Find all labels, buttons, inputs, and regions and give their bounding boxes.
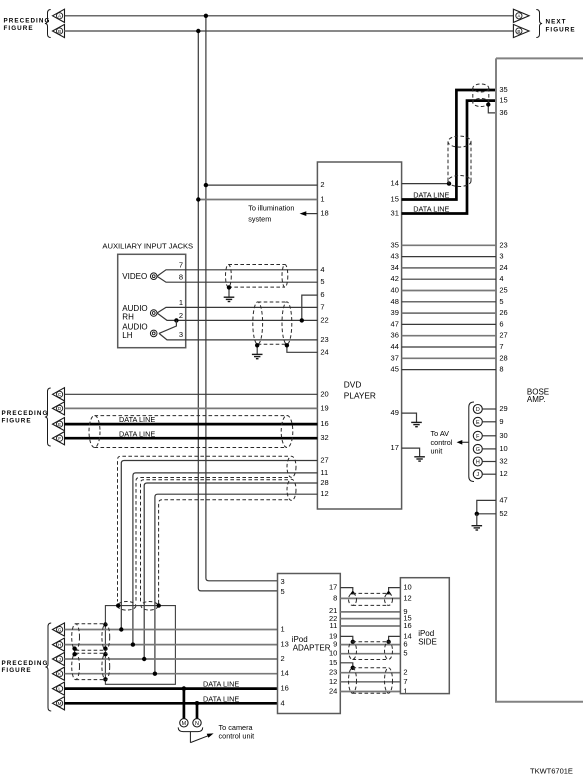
wire iPod pin 8 to side pin 12 (340, 597, 400, 599)
wire audio LH pin 3 to DVD pin 23 (159, 333, 317, 340)
svg-text:7: 7 (179, 260, 183, 269)
audio RH jack J2 (150, 310, 157, 317)
svg-text:12: 12 (329, 677, 337, 686)
svg-text:16: 16 (320, 419, 328, 428)
wire iPod-side pin 14 to shield (389, 636, 401, 641)
wire video pin 7 to DVD pin 4 (157, 270, 317, 276)
svg-text:M: M (58, 701, 62, 706)
wire iPod pin 23 to side pin 2 (340, 672, 400, 674)
wire DVD pin 17 to ground (402, 448, 420, 457)
svg-text:H: H (58, 642, 61, 647)
svg-text:4: 4 (499, 274, 503, 283)
audio shield drain to DVD pin 24 (287, 345, 318, 352)
svg-text:RH: RH (122, 313, 134, 322)
wire DVD pin 34 to BOSE pin 24 (402, 267, 496, 269)
svg-text:SIDE: SIDE (418, 637, 437, 646)
wire DVD pin 1 (198, 199, 317, 201)
svg-text:N: N (195, 721, 199, 727)
svg-text:26: 26 (499, 308, 507, 317)
svg-text:To illumination: To illumination (248, 204, 294, 213)
wire DVD pin 27 down to iPod pin 1 wire (121, 461, 317, 630)
svg-text:24: 24 (320, 347, 328, 356)
wire DVD pin 44 to BOSE pin 7 (402, 346, 496, 348)
arrowhead to illumination system (300, 211, 307, 216)
svg-text:1: 1 (320, 195, 324, 204)
connector arrow G (53, 623, 65, 636)
wire DVD pin 2 (206, 184, 318, 186)
wire to ground pins 47/52 (476, 514, 478, 526)
junction DVD28 wire / iPod pin2 wire (142, 657, 146, 661)
AV connector terminal G to BOSE pin 10 (473, 444, 507, 454)
shield of mid data cable (dashed) (95, 415, 288, 417)
svg-text:27: 27 (320, 456, 328, 465)
svg-text:29: 29 (499, 404, 507, 413)
svg-text:35: 35 (499, 85, 507, 94)
wire DVD pin 49 to ground (402, 413, 417, 422)
svg-text:25: 25 (499, 286, 507, 295)
ground (DVD pin 49) (411, 422, 422, 426)
AV connector terminal D to BOSE pin 29 (473, 404, 507, 414)
svg-text:3: 3 (281, 577, 285, 586)
junction shield drain pin36 (486, 102, 490, 106)
svg-text:28: 28 (320, 478, 328, 487)
svg-text:34: 34 (391, 263, 399, 272)
wire DVD pin 48 to BOSE pin 5 (402, 301, 496, 303)
svg-text:PRECEDING: PRECEDING (2, 410, 49, 417)
svg-text:30: 30 (499, 431, 507, 440)
svg-text:control unit: control unit (219, 732, 255, 741)
wire iPod pin 9 to side pin 6 (340, 644, 400, 646)
svg-text:24: 24 (329, 687, 337, 696)
arrow to camera control unit (190, 736, 208, 743)
svg-text:22: 22 (320, 315, 328, 324)
svg-text:2: 2 (281, 654, 285, 663)
junction pin19 / shield (351, 640, 355, 644)
svg-text:DATA LINE: DATA LINE (203, 680, 239, 689)
connector arrow H (53, 638, 65, 651)
svg-text:7: 7 (499, 342, 503, 351)
wire DVD pin 43 to BOSE pin 3 (402, 256, 496, 258)
svg-text:15: 15 (329, 658, 337, 667)
shield of cable G/H (dashed) (76, 623, 106, 625)
wire iPod pin 21 to side pin 9 (340, 611, 400, 613)
BOSE amp box (496, 58, 583, 701)
wire arrow D to DVD pin 19 (65, 407, 318, 409)
wire iPod pin 19 to shield (340, 636, 353, 641)
svg-text:J: J (58, 657, 60, 662)
ground (audio shield) (252, 354, 263, 358)
svg-text:DATA LINE: DATA LINE (203, 694, 239, 703)
wire iPod pin 12 to side pin 7 (340, 681, 400, 683)
wire audio LH common link (159, 320, 176, 333)
AV connector terminal E to BOSE pin 9 (473, 417, 503, 427)
wire DVD pin 47 to BOSE pin 6 (402, 323, 496, 325)
connector arrow K (53, 667, 65, 680)
svg-text:32: 32 (499, 457, 507, 466)
junction shield 27/11 to bus (116, 603, 120, 607)
shield of vertical data cable (dashed) (447, 142, 449, 181)
wire iPod-side pin 10 to shield (389, 588, 401, 591)
wire iPod pin 10 to side pin 5 (340, 653, 400, 655)
wire iPod pin 24 to side pin 1 (340, 691, 400, 693)
svg-text:44: 44 (391, 342, 399, 351)
svg-text:FIGURE: FIGURE (2, 418, 32, 425)
svg-text:49: 49 (391, 408, 399, 417)
svg-text:16: 16 (281, 684, 289, 693)
svg-text:5: 5 (499, 297, 503, 306)
data line wire arrow E to DVD pin 16 (thick) (65, 423, 318, 426)
svg-text:39: 39 (391, 308, 399, 317)
svg-text:FIGURE: FIGURE (4, 25, 34, 32)
wire DVD pin 11 down to iPod pin 13 wire (133, 473, 318, 645)
svg-text:8: 8 (499, 365, 503, 374)
connector arrow E (53, 418, 65, 431)
svg-text:3: 3 (179, 330, 183, 339)
wire iPod pin 11 to side pin 16 (340, 625, 400, 627)
wire audio RH pin 1 to DVD pin 7 (157, 307, 317, 313)
svg-text:1: 1 (179, 298, 183, 307)
junction bus / GH tube bottom (103, 646, 107, 650)
video jack J1 (150, 273, 157, 280)
svg-text:43: 43 (391, 252, 399, 261)
auxiliary input jacks box (118, 254, 186, 347)
wire DVD pin 42 to BOSE pin 4 (402, 278, 496, 280)
svg-text:G: G (476, 447, 480, 453)
svg-text:15: 15 (391, 195, 399, 204)
svg-text:8: 8 (333, 593, 337, 602)
svg-text:47: 47 (391, 319, 399, 328)
iPod side box (400, 578, 449, 694)
svg-text:5: 5 (320, 277, 324, 286)
junction audio common fork (174, 318, 178, 322)
svg-text:10: 10 (403, 583, 411, 592)
shield of cable 9/10 (dashed) (353, 641, 389, 643)
brace top-left (45, 10, 51, 38)
bracket for AV control terminals (469, 402, 474, 482)
svg-text:PLAYER: PLAYER (344, 390, 376, 400)
svg-text:5: 5 (281, 587, 285, 596)
audio LH jack J3 (150, 330, 157, 337)
svg-text:2: 2 (320, 180, 324, 189)
connector arrow L (53, 682, 65, 695)
svg-text:NEXT: NEXT (546, 18, 567, 25)
wire DVD pin 37 to BOSE pin 28 (402, 357, 496, 359)
svg-text:PRECEDING: PRECEDING (2, 660, 49, 667)
svg-text:DATA LINE: DATA LINE (119, 415, 155, 424)
wire iPod pin 17 to shield (340, 588, 353, 591)
shield of cable 27/11 (dashed) (118, 456, 289, 601)
svg-text:system: system (248, 215, 271, 224)
shield of cable 28/12 (dashed) (141, 480, 289, 602)
connector arrow B (to preceding figure) (53, 24, 65, 37)
svg-text:6: 6 (320, 290, 324, 299)
svg-text:DATA LINE: DATA LINE (413, 191, 449, 200)
svg-text:13: 13 (281, 640, 289, 649)
svg-text:D: D (476, 407, 480, 413)
junction audio shield drain left (255, 343, 259, 347)
svg-text:2: 2 (403, 668, 407, 677)
svg-text:3: 3 (499, 252, 503, 261)
junction pin14 / shield (447, 181, 451, 185)
wire DVD pin 35 to BOSE pin 23 (402, 244, 496, 246)
junction DVD12 wire / iPod pin14 wire (153, 672, 157, 676)
svg-text:17: 17 (329, 583, 337, 592)
svg-text:52: 52 (499, 509, 507, 518)
wire drop to terminal N (thick) (196, 703, 199, 718)
wire DVD pin 14 to shield (402, 183, 449, 185)
wire iPod pin 15 to shield (340, 663, 353, 668)
svg-text:4: 4 (320, 265, 324, 274)
shield of video cable (dashed) (228, 264, 285, 266)
svg-text:37: 37 (391, 353, 399, 362)
svg-text:11: 11 (320, 468, 328, 477)
junction net B / top wire (196, 29, 200, 33)
svg-text:7: 7 (403, 677, 407, 686)
junction shield 28/12 to bus (157, 603, 161, 607)
junction data line 16 / M drop (182, 686, 187, 691)
svg-text:14: 14 (391, 179, 399, 188)
bracket under M/N (178, 727, 203, 731)
junction video shield drain (227, 285, 231, 289)
data line wire arrow M to iPod pin 4 (thick) (65, 702, 278, 705)
svg-text:5: 5 (403, 649, 407, 658)
wire iPod pin 22 to side pin 15 (340, 618, 400, 620)
video shield drain wire (228, 287, 230, 297)
connector arrow M (53, 697, 65, 710)
connector arrow C (53, 388, 65, 401)
svg-text:15: 15 (499, 96, 507, 105)
junction DVD27 wire / iPod pin1 wire (119, 627, 123, 631)
svg-text:DVD: DVD (344, 380, 362, 390)
svg-text:12: 12 (320, 489, 328, 498)
wire net A vertical drop to iPod adapter pin 3 (206, 16, 278, 581)
shield interconnect bus (105, 606, 175, 685)
connector arrow F (53, 432, 65, 445)
shield of cable 8/12 (dashed) (353, 592, 389, 594)
junction bus / JK tube bottom (103, 677, 107, 681)
svg-text:2: 2 (179, 311, 183, 320)
wire arrow H to iPod pin 13 (65, 644, 278, 646)
junction pin47/pin52 (475, 512, 479, 516)
svg-text:24: 24 (499, 263, 507, 272)
AV connector terminal H to BOSE pin 32 (473, 457, 507, 467)
svg-text:1: 1 (281, 625, 285, 634)
wire arrow J to iPod pin 2 (65, 658, 278, 660)
shield drain link left (74, 649, 76, 655)
svg-text:19: 19 (320, 403, 328, 412)
junction drain left bottom (72, 652, 76, 656)
svg-text:14: 14 (281, 669, 289, 678)
svg-text:E: E (476, 420, 480, 426)
wire audio common pin 2 to DVD pin 22 (157, 313, 317, 320)
connector arrow A (to next figure) (513, 9, 529, 22)
connector arrow D (53, 402, 65, 415)
svg-text:36: 36 (499, 108, 507, 117)
junction drain left top (72, 646, 76, 650)
DVD player box (317, 162, 401, 509)
brace bottom-left (45, 623, 51, 711)
connector arrow J (53, 652, 65, 665)
svg-text:36: 36 (391, 331, 399, 340)
AV connector terminal J to BOSE pin 12 (473, 469, 507, 479)
junction net B / DVD pin 1 (196, 197, 200, 201)
svg-text:9: 9 (499, 417, 503, 426)
svg-text:23: 23 (499, 240, 507, 249)
svg-text:32: 32 (320, 433, 328, 442)
svg-text:7: 7 (320, 302, 324, 311)
data line wire DVD pin 31 to BOSE pin 15 (thick) (402, 101, 496, 214)
wire DVD pin 28 down to iPod pin 2 wire (144, 483, 317, 659)
AV connector terminal F to BOSE pin 30 (473, 431, 507, 441)
wire BOSE pin 47 (477, 500, 496, 513)
shield contact triangle right (pair 8/12) (386, 590, 392, 594)
data line wire DVD pin 15 to BOSE pin 35 (thick) (402, 90, 496, 200)
svg-text:35: 35 (391, 240, 399, 249)
svg-text:VIDEO: VIDEO (122, 272, 147, 281)
junction net A / DVD pin 2 (204, 183, 208, 187)
brace middle-left (45, 388, 51, 446)
iPod adapter box (278, 574, 341, 714)
audio shield drain to ground (256, 345, 258, 354)
wire arrow K to iPod pin 14 (65, 673, 278, 675)
connector arrow A (to preceding figure) (53, 9, 65, 22)
wire net B (top horizontal) (65, 30, 514, 32)
svg-text:45: 45 (391, 365, 399, 374)
wire BOSE pin 52 (477, 513, 496, 515)
shield of cable 23/12/24 (dashed) (353, 667, 389, 669)
svg-text:18: 18 (320, 209, 328, 218)
svg-text:47: 47 (499, 495, 507, 504)
wire arrow G to iPod pin 1 (65, 629, 278, 631)
wire DVD pin 40 to BOSE pin 25 (402, 290, 496, 292)
terminal N circle (193, 719, 201, 727)
wire DVD pin 45 to BOSE pin 8 (402, 369, 496, 371)
junction bus / JK tube top (103, 652, 107, 656)
svg-text:unit: unit (431, 447, 443, 456)
branch DVD pin 6 from pin 22 wire (302, 295, 318, 320)
svg-text:ADAPTER: ADAPTER (293, 643, 331, 652)
wire net B vertical drop to iPod adapter pin 5 (198, 31, 277, 591)
junction data line 4 / N drop (195, 701, 200, 706)
svg-text:12: 12 (499, 469, 507, 478)
shield of horizontal data cable near BOSE (dashed) (472, 88, 474, 103)
wire arrow C to DVD pin 20 (65, 393, 318, 395)
shield cable 28/12 bottom ellipse (141, 602, 158, 611)
ground (DVD pin 17) (414, 457, 425, 461)
svg-text:27: 27 (499, 331, 507, 340)
shield of cable J/K (dashed) (76, 652, 106, 654)
shield drain to BOSE pin 36 (488, 105, 496, 113)
svg-text:AUXILIARY INPUT JACKS: AUXILIARY INPUT JACKS (102, 242, 193, 251)
svg-text:FIGURE: FIGURE (2, 667, 32, 674)
svg-text:48: 48 (391, 297, 399, 306)
svg-text:LH: LH (122, 331, 132, 340)
svg-text:42: 42 (391, 274, 399, 283)
svg-text:B: B (58, 29, 61, 34)
svg-text:L: L (58, 686, 61, 691)
wire drop to terminal M (thick) (183, 689, 186, 719)
svg-text:E: E (58, 422, 61, 427)
wire DVD pin 12 down to iPod pin 14 wire (155, 494, 318, 674)
svg-text:11: 11 (330, 621, 338, 630)
shield of audio cable (dashed) (258, 301, 287, 303)
svg-text:28: 28 (499, 353, 507, 362)
svg-text:DATA LINE: DATA LINE (413, 205, 449, 214)
svg-text:B: B (517, 29, 520, 34)
terminal M circle (180, 719, 188, 727)
shield cable 27/11 bottom ellipse (118, 602, 136, 611)
svg-text:G: G (58, 627, 62, 632)
svg-text:16: 16 (403, 621, 411, 630)
svg-text:10: 10 (499, 444, 507, 453)
svg-text:40: 40 (391, 286, 399, 295)
ground (video shield) (224, 297, 235, 301)
junction pin15 / shield (351, 666, 355, 670)
connector arrow B (to next figure) (513, 24, 529, 37)
arrow to AV control unit (461, 441, 469, 443)
junction net A / top wire (204, 14, 208, 18)
svg-text:8: 8 (179, 273, 183, 282)
svg-text:PRECEDING: PRECEDING (4, 18, 51, 25)
brace top-right (536, 10, 542, 38)
wire DVD pin 18 to illumination system (306, 213, 317, 215)
svg-text:12: 12 (403, 593, 411, 602)
wire DVD pin 39 to BOSE pin 26 (402, 312, 496, 314)
svg-text:20: 20 (320, 389, 328, 398)
shield contact triangle left (pair 8/12) (350, 590, 356, 594)
svg-text:17: 17 (391, 443, 399, 452)
svg-text:31: 31 (391, 209, 399, 218)
svg-text:F: F (58, 436, 61, 441)
data line wire arrow F to DVD pin 32 (thick) (65, 437, 318, 440)
svg-text:J: J (476, 472, 479, 478)
wire DVD pin 36 to BOSE pin 27 (402, 335, 496, 337)
svg-text:6: 6 (403, 640, 407, 649)
junction pin6 branch / pin22 wire (300, 318, 304, 322)
svg-text:10: 10 (329, 649, 337, 658)
svg-text:23: 23 (320, 335, 328, 344)
svg-text:TKWT6701E: TKWT6701E (530, 767, 573, 776)
svg-text:4: 4 (281, 698, 285, 707)
junction DVD11 wire / iPod pin13 wire (131, 642, 135, 646)
svg-text:23: 23 (329, 668, 337, 677)
junction side pin14 / shield (386, 640, 390, 644)
svg-text:control: control (431, 438, 453, 447)
svg-text:FIGURE: FIGURE (546, 27, 576, 34)
wire net A (top horizontal) (65, 15, 514, 17)
junction bus / GH tube top (103, 622, 107, 626)
svg-text:AMP.: AMP. (527, 395, 546, 404)
svg-text:M: M (182, 721, 187, 727)
svg-text:9: 9 (333, 640, 337, 649)
junction audio shield drain right (285, 343, 289, 347)
data line wire arrow L to iPod pin 16 (thick) (65, 687, 278, 690)
ground (BOSE 47/52) (472, 526, 483, 530)
svg-text:6: 6 (499, 319, 503, 328)
svg-text:DATA LINE: DATA LINE (119, 429, 155, 438)
svg-text:H: H (476, 460, 480, 466)
wire video pin 8 to DVD pin 5 (157, 276, 317, 282)
